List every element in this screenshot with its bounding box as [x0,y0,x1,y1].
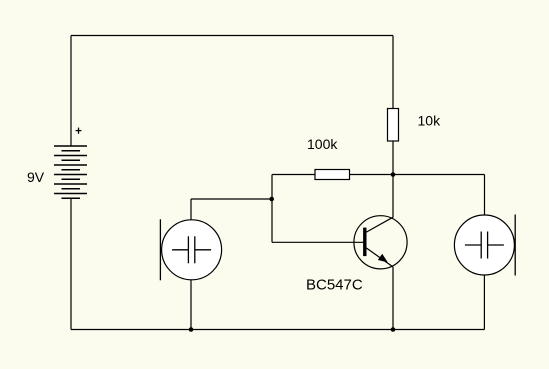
svg-text:100k: 100k [307,136,338,152]
svg-text:9V: 9V [27,169,45,185]
svg-text:BC547C: BC547C [306,277,363,294]
svg-text:10k: 10k [418,113,442,129]
